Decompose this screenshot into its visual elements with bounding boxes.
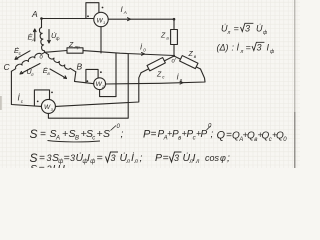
svg-text:3: 3 [111,153,116,163]
W3 polarity dot right [51,92,53,94]
wire Za to node O' [173,45,175,57]
W3 voltage coil loop [34,90,49,106]
svg-text:3: 3 [70,153,75,163]
wire W1 to corner [108,18,174,20]
neutral wire o to Z box [45,51,67,53]
equation line 2: P = sqrt3 Ul Il cos phi [155,151,230,165]
svg-text:A: A [31,38,35,43]
svg-text:P: P [155,152,162,164]
paper background [0,0,300,168]
svg-text:3: 3 [174,153,179,163]
svg-text:3: 3 [47,153,52,163]
wattmeter W3 [41,99,55,113]
wire load B terminal down and bottom return to W2 [105,69,205,84]
svg-text:л: л [240,49,244,55]
W2 voltage coil loop [86,69,98,83]
neutral impedance Z box [67,48,83,53]
right note line 1: Ul = sqrt3 Uf [221,23,268,36]
equation line 1: Q = QA + QB + QC + Q0 [217,130,288,144]
W1 voltage coil loop [86,3,99,19]
svg-text:c: c [92,136,95,142]
left edge smudge [0,96,2,110]
svg-text:л: л [227,30,231,36]
line voltage arrow Ul (down-left near C) [20,64,40,75]
wattmeter W1 [94,12,108,26]
node A [40,17,43,20]
phase B source coil [45,52,76,72]
EMF arrow Ea (up) [34,29,37,41]
impedance Za box [171,30,178,45]
svg-text:=: = [246,43,251,53]
svg-text:cos: cos [205,153,220,163]
svg-text:Z: Z [68,42,74,49]
svg-text:Z: Z [156,72,162,79]
svg-text:S: S [30,127,38,141]
svg-text:S: S [103,128,110,140]
wire W1 bottom to neutral [100,27,102,53]
EMF arrow Ec (down-left) [15,51,30,60]
svg-text:B: B [77,62,83,72]
equation line 2: S = 3Sf = 3UfIf = sqrt3 Ul Il [30,151,143,165]
svg-text:=: = [97,152,103,164]
svg-text:Z: Z [188,51,194,58]
underline under SA+SB+SC [48,141,101,142]
wire left leg to Zc [141,56,174,73]
wire W3 voltage return to neutral [48,54,128,118]
svg-text:;: ; [211,129,214,140]
svg-text:ф: ф [90,159,95,165]
node corner dot [173,18,176,21]
W2 polarity dot left [87,80,89,82]
svg-text:Q: Q [217,130,226,142]
current arrow Ia on top wire [128,18,131,21]
equation line 1: S = SA + SB + SC + S0 [30,124,124,142]
svg-text:=: = [234,24,239,34]
wire A to W1 [42,18,94,20]
right note line 2: (delta): Il = sqrt3 If [217,42,276,55]
svg-text:л: л [126,159,131,165]
zero superscript over S0 [111,126,117,131]
current arrow Ib on load bottom wire [180,81,183,84]
neutral wire Z box to O' [83,51,174,56]
svg-text:пр: пр [75,44,80,49]
svg-text:;: ; [121,128,124,140]
svg-text:л: л [195,159,200,165]
wire node C down and to W3 [11,71,41,106]
wattmeter W2 [94,78,106,90]
svg-text:(Δ): (Δ) [217,43,229,53]
svg-text:A: A [31,9,38,19]
W2 polarity dot right [100,71,102,73]
svg-text:C: C [4,62,11,72]
svg-text:=: = [163,152,169,164]
current arrow Io on neutral [142,53,145,56]
svg-text:φ: φ [220,153,226,163]
svg-text:=: = [39,163,45,168]
equation line 1: P = PA + PB + PC + P0 [143,124,214,142]
svg-text:S: S [30,163,37,168]
svg-text:U: U [53,163,61,168]
wire node B to W2 [75,72,94,84]
svg-text:;: ; [140,152,143,164]
svg-text:=: = [151,129,157,140]
phase voltage arrow Uf (down) [48,30,51,44]
svg-text:=: = [40,129,46,140]
W1 polarity dot right [102,7,104,9]
wire load C terminal down and across to W3 [55,73,141,107]
equation line 3 partial (clipped at bottom) [30,163,65,175]
wire right leg to Zb [174,56,201,69]
impedance Zb box [180,56,198,69]
svg-text:ф: ф [56,36,60,41]
impedance Zc box [147,58,165,71]
svg-text:3: 3 [47,164,52,168]
node O' dot [173,55,175,57]
svg-text:Z: Z [160,33,166,40]
wire W2 voltage return to neutral [100,53,116,96]
svg-text:+: + [62,128,68,140]
svg-text:л: л [134,159,139,165]
svg-text:л: л [30,72,34,77]
W3 polarity dot left [37,101,39,103]
svg-text:A: A [123,10,127,15]
svg-text:;: ; [227,152,230,164]
svg-text:A: A [55,136,60,142]
W1 polarity dot left [87,15,89,17]
svg-text:+: + [97,128,103,140]
svg-text:3: 3 [257,43,262,53]
svg-text:1: 1 [103,20,105,25]
svg-text:3: 3 [245,24,250,34]
phase A source coil [39,19,44,53]
phase C source coil [11,52,44,71]
wire corner down to Za [173,19,175,29]
EMF arrow Eb (down-right) [50,69,67,79]
right page margin line [294,0,296,112]
svg-text:B: B [75,136,79,142]
svg-text:I: I [62,163,65,168]
svg-text:P: P [201,129,208,140]
svg-text:U̇: U̇ [256,23,263,33]
